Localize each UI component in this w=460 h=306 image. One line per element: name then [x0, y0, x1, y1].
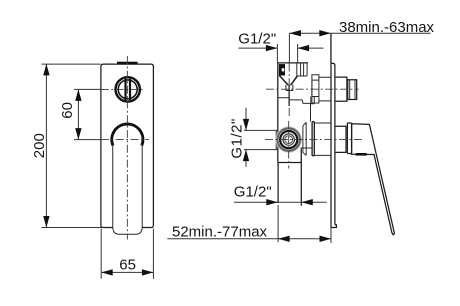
- side port circle thread ring: [280, 131, 297, 148]
- cartridge neck: [303, 122, 306, 155]
- valve body back face: [277, 63, 279, 163]
- front knob horizontal centerline: [74, 88, 101, 90]
- svg-text:60: 60: [59, 102, 76, 119]
- svg-text:65: 65: [119, 256, 136, 273]
- front handle horizontal centerline: [74, 139, 101, 141]
- svg-text:200: 200: [31, 133, 48, 158]
- dimension G1/2 top: [239, 44, 324, 63]
- cartridge housing behind plate: [314, 123, 331, 155]
- svg-text:38min.-63max: 38min.-63max: [339, 19, 435, 36]
- diverter stem vertical: [288, 85, 290, 106]
- handle stem: [335, 126, 346, 152]
- side port circle outer: [276, 127, 301, 152]
- dimension 60 arrows: [75, 89, 81, 139]
- section block top left: [279, 64, 285, 75]
- svg-text:G1/2": G1/2": [229, 118, 246, 158]
- wall plate side view: [331, 33, 336, 227]
- handle hub and lever: [352, 124, 395, 235]
- dimension 60 line: [77, 89, 79, 139]
- knob cap detail lines: [348, 80, 355, 100]
- thick bar on plate top edge: [117, 62, 138, 65]
- dimension G1/2 bottom: [234, 201, 327, 203]
- diverter seat lines: [286, 85, 293, 91]
- body right edge to flange: [301, 103, 313, 162]
- collar bottom stub: [311, 97, 315, 104]
- cartridge flange: [312, 122, 314, 156]
- wall plate front view: [101, 64, 153, 227]
- dimension G1/2 left: [244, 108, 278, 167]
- top cap block: [297, 63, 307, 76]
- handle collar: [347, 123, 351, 154]
- collar-to-plate stem: [319, 77, 331, 101]
- svg-text:G1/2": G1/2": [238, 31, 276, 48]
- side diverter axis centerline: [266, 88, 359, 90]
- side cartridge axis centerline: [265, 139, 364, 141]
- dimension 200 arrows: [43, 64, 49, 228]
- top port vertical centerline: [288, 64, 290, 118]
- body top shoulder: [277, 62, 308, 64]
- hub bottom thick detail: [356, 153, 367, 156]
- diverter knob outer ring: [116, 77, 140, 101]
- dimension 38min-63max: [289, 33, 430, 63]
- body bottom edge: [278, 162, 302, 164]
- side port boss edge: [275, 130, 277, 150]
- handle lever front view: [113, 146, 142, 235]
- side port circle inner rings: [283, 134, 294, 145]
- diverter knob inner ring: [118, 80, 137, 99]
- front vertical centerline: [126, 56, 128, 240]
- funnel diagonals: [279, 76, 297, 86]
- collar thread notches: [311, 83, 312, 95]
- dimension 65 arrows: [101, 269, 153, 275]
- dimension 200 line: [42, 64, 102, 228]
- side circle vertical centerline: [288, 121, 290, 169]
- svg-text:52min.-77max: 52min.-77max: [172, 223, 268, 240]
- dimension 65 lines: [101, 229, 153, 279]
- diverter collar (threaded): [312, 75, 319, 103]
- dimension 52min-77max: [167, 205, 331, 243]
- handle arc front view: [112, 124, 143, 146]
- lower body contour: [278, 98, 311, 104]
- bottom outlet port: [278, 150, 301, 206]
- svg-text:G1/2": G1/2": [234, 183, 272, 200]
- knob slot lines: [126, 79, 131, 100]
- diverter knob cylinder: [335, 77, 357, 101]
